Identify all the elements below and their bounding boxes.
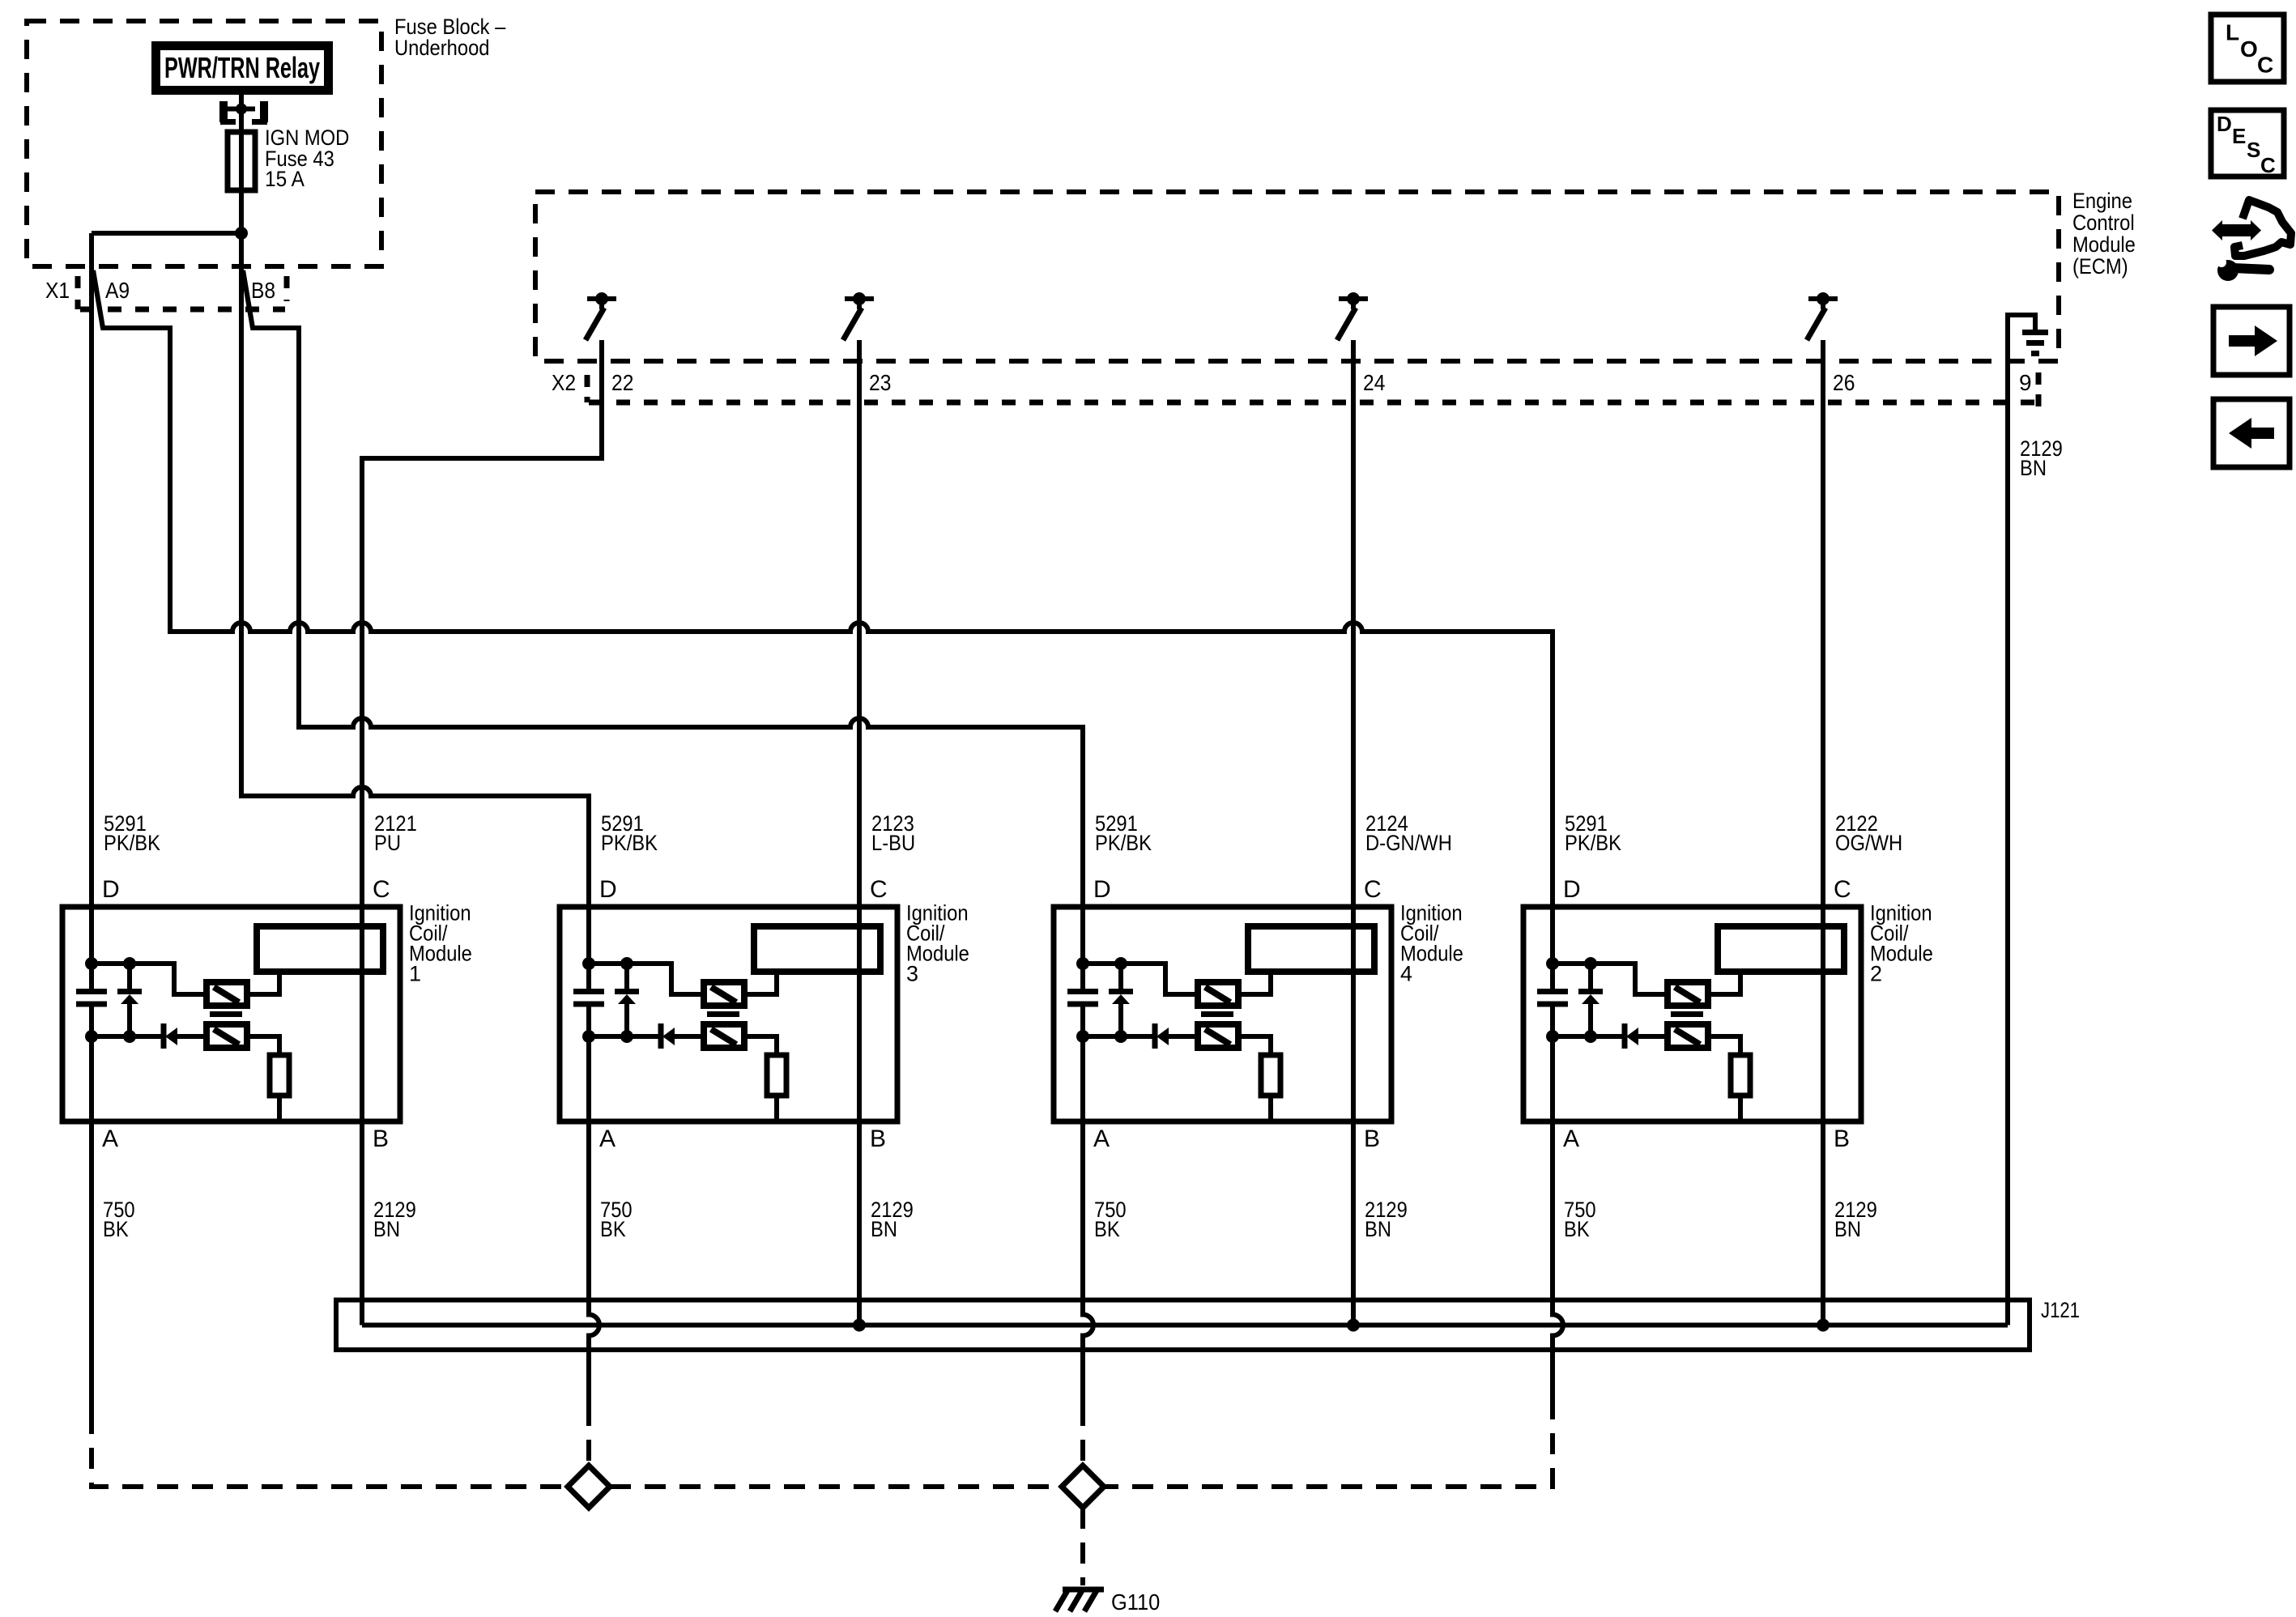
wire label 2129 BN right <box>2020 436 2063 480</box>
wire label 5291 PK/BK <box>1565 811 1621 855</box>
wire junction to A9 <box>92 231 241 236</box>
svg-text:B8: B8 <box>251 278 275 303</box>
module 4 label <box>1400 901 1463 986</box>
svg-text:C: C <box>1834 876 1851 903</box>
svg-text:PU: PU <box>374 831 401 855</box>
pin A9 terminal slant <box>93 270 103 328</box>
pin B8 terminal slant <box>243 270 253 328</box>
svg-text:D: D <box>1563 876 1581 903</box>
svg-text:A: A <box>1563 1126 1579 1152</box>
ignition coil/module 2 box <box>1523 907 1861 1121</box>
svg-text:D: D <box>599 876 617 903</box>
wire label 2123 L-BU <box>871 811 915 855</box>
svg-text:X1: X1 <box>45 278 70 303</box>
svg-text:1: 1 <box>409 962 421 986</box>
svg-text:S: S <box>2247 138 2260 162</box>
svg-text:B: B <box>1364 1126 1380 1152</box>
svg-text:BK: BK <box>1094 1217 1120 1241</box>
module 2 driver stage T1 <box>1668 982 1708 1006</box>
svg-text:Control: Control <box>2072 211 2135 235</box>
svg-text:C: C <box>373 876 390 903</box>
module 4 T1 output wire <box>1238 972 1271 994</box>
svg-text:PK/BK: PK/BK <box>1095 831 1152 855</box>
module 3 label <box>906 901 969 986</box>
module 4 resistor <box>1238 1036 1280 1121</box>
module 1 zener diode <box>117 964 142 1036</box>
svg-text:BN: BN <box>871 1217 897 1241</box>
splice diamond 2 <box>1062 1466 1104 1508</box>
svg-text:C: C <box>2257 53 2273 78</box>
ground G110 symbol <box>1055 1588 1104 1611</box>
ignition coil/module 4 box <box>1054 907 1391 1121</box>
module 4 driver stage T2 <box>1198 1024 1238 1048</box>
module 2 T1 output wire <box>1708 972 1740 994</box>
splice diamond 1 <box>568 1466 610 1508</box>
dashed ground distribution line <box>92 1405 1553 1585</box>
module 4 driver stage T1 <box>1198 982 1238 1006</box>
svg-text:PK/BK: PK/BK <box>104 831 160 855</box>
module 4 internal supply rail <box>1076 907 1198 994</box>
module 4 C to B through wire <box>1351 907 1356 1121</box>
svg-text:(ECM): (ECM) <box>2072 254 2128 279</box>
connector X1 row <box>78 276 287 309</box>
module 3 T1 output wire <box>744 972 777 994</box>
svg-text:BN: BN <box>2020 456 2047 480</box>
svg-text:B: B <box>1834 1126 1850 1152</box>
module 1 driver stage T1 <box>207 982 247 1006</box>
svg-text:OG/WH: OG/WH <box>1835 831 1902 855</box>
fuse block label <box>394 15 505 60</box>
svg-text:9: 9 <box>2019 370 2032 395</box>
svg-text:A: A <box>1093 1126 1110 1152</box>
svg-text:BK: BK <box>103 1217 129 1241</box>
svg-text:3: 3 <box>906 962 918 986</box>
splice pack J121 bus <box>336 1300 2030 1351</box>
wire 2129 BN module 2 pin B to bus <box>1817 1121 1830 1332</box>
wire label 750 BK bottom <box>600 1198 633 1241</box>
svg-text:G110: G110 <box>1111 1589 1160 1615</box>
ECM driver switch 2 <box>843 292 874 340</box>
wire 750 BK module 3 pin A <box>589 1121 599 1405</box>
svg-text:B: B <box>870 1126 886 1152</box>
wire 2129 BN module 4 pin B to bus <box>1347 1121 1360 1332</box>
module 4 zener diode <box>1109 964 1133 1036</box>
wire label 750 BK bottom <box>1564 1198 1596 1241</box>
arrow next icon <box>2213 307 2290 375</box>
wire label 5291 PK/BK <box>601 811 658 855</box>
wire 5291 A9 branch to module 2 pin D <box>93 270 1553 907</box>
module 1 label <box>409 901 472 986</box>
ECM internal ground symbol <box>2008 315 2048 361</box>
module 3 zener diode <box>615 964 639 1036</box>
module 4 diode <box>1155 1023 1198 1049</box>
wire 750 BK module 1 pin A <box>89 1121 94 1413</box>
junction node below fuse <box>235 227 248 240</box>
module 3 diode <box>661 1023 704 1049</box>
wire label 750 BK bottom <box>103 1198 135 1241</box>
module 2 coil secondary block <box>1718 926 1844 972</box>
svg-text:E: E <box>2232 124 2246 148</box>
ECM driver switch 3 <box>1337 292 1368 340</box>
svg-text:D: D <box>1093 876 1111 903</box>
module 2 driver stage T2 <box>1668 1024 1708 1048</box>
module 3 driver stage T1 <box>704 982 744 1006</box>
svg-text:BK: BK <box>600 1217 626 1241</box>
DESC icon box <box>2211 110 2284 177</box>
wire 5291 B8 straight to module 3 pin D <box>241 233 589 907</box>
svg-text:L: L <box>2226 20 2239 45</box>
module 3 coil secondary block <box>754 926 880 972</box>
module 4 coil secondary block <box>1248 926 1374 972</box>
svg-text:J121: J121 <box>2041 1298 2080 1322</box>
svg-text:24: 24 <box>1363 370 1385 395</box>
svg-text:C: C <box>1364 876 1382 903</box>
ECM label <box>2072 189 2136 279</box>
module 4 core bar <box>1201 1011 1233 1017</box>
svg-text:B: B <box>373 1126 389 1152</box>
relay PWR/TRN Relay <box>156 46 329 91</box>
svg-text:D: D <box>102 876 120 903</box>
svg-text:2: 2 <box>1870 962 1882 986</box>
wire label 2124 D-GN/WH <box>1365 811 1452 855</box>
svg-text:PWR/TRN Relay: PWR/TRN Relay <box>164 51 320 84</box>
wire 5291 B8 branch to module 4 pin D <box>243 270 1083 907</box>
module 1 internal low rail <box>85 1030 162 1043</box>
module 1 diode <box>164 1023 207 1049</box>
svg-text:A: A <box>102 1126 118 1152</box>
wire label 2129 BN bottom <box>373 1198 416 1241</box>
module 3 A pin internal wire <box>586 1036 591 1121</box>
svg-text:C: C <box>870 876 888 903</box>
svg-text:A: A <box>599 1126 616 1152</box>
wire 750 BK module 2 pin A <box>1553 1121 1563 1419</box>
svg-text:BN: BN <box>1834 1217 1861 1241</box>
module 4 internal low rail <box>1076 1030 1153 1043</box>
svg-text:X2: X2 <box>552 370 576 395</box>
module 1 internal supply rail <box>85 907 207 994</box>
wire 5291 A9 straight to module 1 pin D <box>89 233 94 907</box>
wire 2122 OG/WH pin 26 to module 2 pin C <box>1821 340 1825 907</box>
fuse block underhood dashed box <box>27 21 381 266</box>
svg-text:Underhood: Underhood <box>394 36 490 60</box>
wire label 5291 PK/BK <box>104 811 160 855</box>
wire 2124 D-GN/WH pin 24 to module 4 pin C <box>1351 340 1356 907</box>
module 3 capacitor <box>573 964 604 1036</box>
wire 2129 BN module 1 pin B to bus <box>360 1121 364 1326</box>
connector X2 row <box>587 372 2041 409</box>
wire 750 BK module 4 pin A <box>1083 1121 1093 1405</box>
module 2 A pin internal wire <box>1550 1036 1555 1121</box>
svg-text:4: 4 <box>1400 962 1412 986</box>
wire 2129 BN module 3 pin B to bus <box>853 1121 866 1332</box>
vehicle service icon <box>2212 200 2291 281</box>
svg-text:Module: Module <box>2072 232 2136 257</box>
module 3 C to B through wire <box>857 907 862 1121</box>
svg-text:L-BU: L-BU <box>871 831 915 855</box>
module 3 internal low rail <box>582 1030 659 1043</box>
engine control module dashed box <box>535 192 2059 361</box>
svg-text:BN: BN <box>373 1217 400 1241</box>
module 3 resistor <box>744 1036 786 1121</box>
ignition coil/module 3 box <box>560 907 897 1121</box>
module 3 internal supply rail <box>582 907 704 994</box>
module 2 label <box>1870 901 1933 986</box>
module 2 resistor <box>1708 1036 1750 1121</box>
svg-text:Engine: Engine <box>2072 189 2132 213</box>
module 2 internal supply rail <box>1546 907 1668 994</box>
wire label 5291 PK/BK <box>1095 811 1152 855</box>
wire 2123 L-BU pin 23 to module 3 pin C <box>857 340 862 907</box>
module 2 core bar <box>1671 1011 1703 1017</box>
svg-text:PK/BK: PK/BK <box>1565 831 1621 855</box>
module 1 coil secondary block <box>257 926 383 972</box>
wire 2129 BN pin 9 to splice pack J121 <box>2005 315 2010 1326</box>
wire label 2129 BN bottom <box>871 1198 914 1241</box>
ECM driver switch 1 <box>586 292 616 340</box>
svg-text:A9: A9 <box>105 278 130 303</box>
ECM driver switch 4 <box>1807 292 1838 340</box>
module 1 A pin internal wire <box>89 1036 94 1121</box>
module 1 C to B through wire <box>360 907 364 1121</box>
module 1 capacitor <box>76 964 107 1036</box>
wire label 2129 BN bottom <box>1834 1198 1877 1241</box>
wire label 750 BK bottom <box>1094 1198 1127 1241</box>
fuse IGN MOD Fuse 43 15 A <box>228 126 349 191</box>
module 3 driver stage T2 <box>704 1024 744 1048</box>
module 2 zener diode <box>1578 964 1603 1036</box>
module 2 diode <box>1625 1023 1668 1049</box>
module 3 core bar <box>707 1011 739 1017</box>
svg-text:PK/BK: PK/BK <box>601 831 658 855</box>
wire label 2121 PU <box>374 811 417 855</box>
svg-text:22: 22 <box>611 370 633 395</box>
svg-text:C: C <box>2260 153 2276 177</box>
LOC icon box <box>2211 15 2284 82</box>
module 2 capacitor <box>1537 964 1568 1036</box>
module 1 T1 output wire <box>247 972 279 994</box>
module 1 driver stage T2 <box>207 1024 247 1048</box>
module 2 C to B through wire <box>1821 907 1825 1121</box>
wire label 2122 OG/WH <box>1835 811 1902 855</box>
module 1 core bar <box>210 1011 242 1017</box>
module 4 A pin internal wire <box>1080 1036 1085 1121</box>
svg-text:D-GN/WH: D-GN/WH <box>1365 831 1452 855</box>
fuse clip terminal <box>220 101 267 122</box>
module 4 capacitor <box>1067 964 1098 1036</box>
svg-text:BK: BK <box>1564 1217 1590 1241</box>
wire 2121 PU pin 22 to module 1 pin C <box>362 340 602 907</box>
module 2 internal low rail <box>1546 1030 1623 1043</box>
svg-text:23: 23 <box>869 370 891 395</box>
wire label 2129 BN bottom <box>1365 1198 1408 1241</box>
arrow back icon <box>2213 399 2290 467</box>
svg-text:15 A: 15 A <box>265 167 305 191</box>
wire relay to fuse <box>239 95 244 233</box>
ignition coil/module 1 box <box>62 907 400 1121</box>
svg-text:D: D <box>2217 112 2232 136</box>
svg-text:O: O <box>2240 36 2258 62</box>
svg-text:26: 26 <box>1833 370 1855 395</box>
module 1 resistor <box>247 1036 289 1121</box>
svg-text:BN: BN <box>1365 1217 1391 1241</box>
